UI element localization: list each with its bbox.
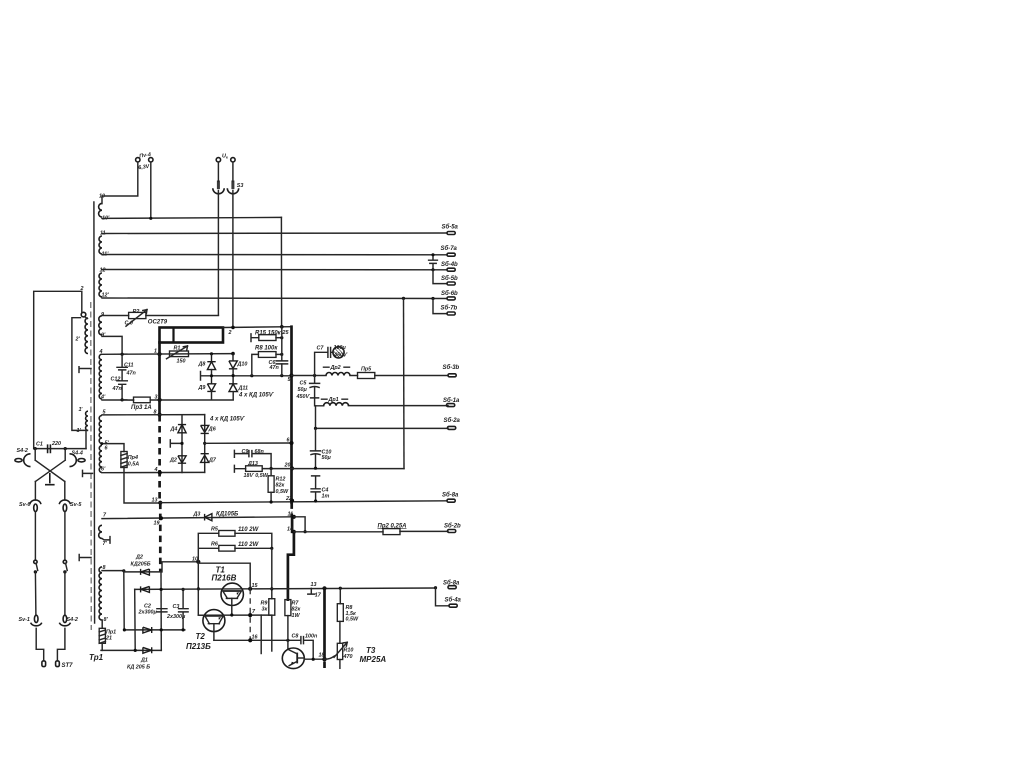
wire primary feed top (34, 291, 82, 448)
node bridge mid left (180, 442, 183, 445)
wire node1 line (102, 353, 233, 356)
capacitor C6 (276, 361, 287, 364)
svg-text:Sv-6: Sv-6 (19, 502, 31, 508)
svg-text:8': 8' (104, 617, 109, 623)
svg-text:Sб-8а: Sб-8а (443, 580, 460, 587)
svg-text:Д7: Д7 (208, 457, 217, 463)
node Sb-8v elbow (434, 586, 437, 589)
node Pr4-D3line none / node bus-D3 (159, 516, 163, 520)
wire node7 drop (260, 615, 262, 653)
wire circle to coil (85, 317, 88, 319)
control unit box (160, 328, 224, 343)
winding 7 lower tick (102, 537, 110, 544)
wire 20 line (234, 450, 404, 472)
capacitor C1 (48, 444, 51, 453)
node D8-D9 (210, 374, 213, 377)
wire x281 vertical (281, 327, 283, 376)
diode D7 (201, 454, 209, 463)
bus left vertical solid (158, 343, 161, 416)
fuse Pr1 (99, 628, 105, 643)
bus right dashed segment (290, 502, 293, 517)
wire Pr4 to node13 (124, 468, 160, 504)
wire C5 to Dr1 corner (314, 398, 317, 429)
svg-text:7': 7' (103, 541, 108, 547)
capacitor C7 branch (315, 348, 333, 376)
control unit divider (172, 328, 174, 343)
winding 8' to Pr1 (101, 620, 103, 628)
svg-text:Пр2 0,25А: Пр2 0,25А (378, 523, 407, 529)
wire Uk left down (217, 162, 219, 315)
capacitor C5 (310, 376, 320, 398)
node C6 bottom (280, 374, 283, 377)
wire R8b top (339, 588, 341, 604)
wire R5 right (235, 533, 272, 548)
node 5 (289, 373, 293, 377)
diode D8 (207, 354, 215, 376)
wire T1 long line (135, 588, 436, 589)
voltage selector mark (45, 473, 55, 485)
wire left contact to Sv-1 (34, 572, 37, 615)
svg-text:15: 15 (252, 583, 259, 589)
svg-text:R2: R2 (133, 309, 140, 315)
jack S4-4 (70, 454, 86, 467)
jack S4-2 upper (15, 454, 31, 467)
node 4b-433 (431, 268, 434, 271)
wire Sb-2a line (316, 427, 449, 429)
transformer Tr1 core (93, 202, 96, 623)
svg-text:С 0: С 0 (125, 321, 133, 327)
wire node7 line (198, 614, 271, 616)
wire Sb-7a line (102, 254, 447, 256)
svg-text:20: 20 (284, 463, 291, 469)
wire box top to bus right (223, 326, 292, 329)
svg-text:С12: С12 (111, 377, 121, 383)
node R15 right (280, 336, 283, 339)
capacitor C2 (157, 609, 167, 612)
svg-text:Пр4: Пр4 (128, 455, 138, 461)
svg-text:С9: С9 (242, 449, 249, 455)
wire lamp left to winding 10 (102, 162, 138, 204)
node row3 rail (160, 628, 163, 631)
diode row3 (143, 627, 152, 633)
node C8 drop (312, 658, 315, 661)
node 16 (248, 638, 252, 642)
svg-text:R6: R6 (211, 541, 219, 547)
svg-text:82к: 82к (292, 607, 301, 613)
diode D1 (143, 647, 152, 653)
node C11 top (121, 353, 124, 356)
tick 17 (308, 588, 315, 594)
diode D6 (201, 425, 209, 433)
node 3 (158, 398, 162, 402)
terminal Sb-8a (447, 499, 455, 502)
lamp terminal Pv-4 left (136, 158, 140, 162)
svg-text:3к: 3к (262, 607, 268, 613)
wire left to plug (36, 628, 44, 660)
svg-text:С7: С7 (317, 346, 325, 352)
svg-text:22: 22 (285, 496, 292, 502)
switch contact left (34, 560, 38, 573)
rectifier rail B (134, 589, 137, 650)
svg-text:Т3: Т3 (366, 646, 376, 655)
wire left drop to Sv-6 (34, 482, 36, 501)
wire row1 (124, 571, 161, 573)
wire node10-15 link (198, 563, 250, 589)
svg-text:Sv-5: Sv-5 (70, 502, 82, 508)
wire right drop to Sv-5 (64, 482, 66, 501)
terminal Sb-4b (447, 268, 455, 271)
wire Pr1 to row4 (101, 643, 103, 650)
resistor R6 (219, 545, 235, 551)
terminal Sb-7a (447, 253, 455, 256)
capacitor C7 can (333, 346, 344, 358)
winding 9 (99, 316, 102, 335)
svg-text:Пр3 1А: Пр3 1А (131, 405, 152, 411)
node 4 (158, 471, 162, 475)
diode D2 (178, 456, 186, 463)
capacitor C11 (117, 354, 127, 380)
wire Sb-6b line (102, 297, 447, 300)
svg-text:100n: 100n (305, 633, 318, 639)
node R1-D8 (210, 352, 213, 355)
node row3 railA (123, 628, 126, 631)
wire node10 feed (162, 562, 198, 572)
wire bridge out to node6 (205, 442, 292, 444)
wire 9' jog (102, 336, 122, 354)
node R6 right (270, 547, 273, 550)
node 7a-433 (431, 253, 434, 256)
wire Sb-5a line (102, 232, 447, 235)
wire winding6-node4 bridge bottom (102, 471, 205, 473)
svg-text:16: 16 (252, 634, 259, 640)
svg-text:47n: 47n (269, 365, 280, 371)
resistor R9 (269, 599, 275, 616)
connector S4-2 lower (59, 615, 70, 626)
fuse S3 left (213, 181, 224, 194)
svg-text:Д3: Д3 (193, 512, 201, 518)
node row4 railB (134, 649, 137, 652)
terminal Sb-8v (448, 586, 456, 589)
wire T3 collector line (304, 658, 324, 660)
svg-text:0,5А: 0,5А (128, 461, 139, 467)
node x280 top (280, 325, 284, 329)
screen tap B (83, 470, 93, 476)
svg-text:220: 220 (51, 441, 61, 447)
svg-text:19: 19 (154, 521, 160, 527)
label Dr2 dashes (324, 366, 350, 368)
svg-text:С11: С11 (124, 362, 134, 368)
wire R7 to T3 (287, 616, 289, 649)
svg-text:1W: 1W (292, 613, 301, 619)
node 20 (290, 466, 294, 470)
capacitor C13 between 7a and 4b (429, 255, 438, 270)
wire Pr2 Sb-2b line (294, 530, 448, 532)
choke Dr1 (324, 403, 349, 406)
svg-text:П216В: П216В (212, 573, 237, 582)
svg-text:21: 21 (105, 636, 112, 642)
wire bus x280 down (280, 217, 282, 326)
wire C12 to Pr3 line (122, 399, 133, 401)
svg-text:0,5W: 0,5W (346, 617, 359, 623)
svg-text:Д2: Д2 (135, 554, 143, 560)
wire Sb-5b elbow (433, 270, 447, 284)
primary winding 2 coil (85, 318, 88, 353)
capacitor C12 (117, 381, 127, 400)
svg-text:Д2: Д2 (169, 457, 177, 463)
connector Sv-6 (30, 500, 41, 512)
wire node5 Sb-3b line (292, 375, 449, 377)
choke Dr2 (326, 373, 350, 376)
plug left (42, 661, 46, 667)
diode D4 (178, 425, 186, 433)
label Dr1 dashes (322, 398, 348, 400)
bridge right column (204, 415, 206, 473)
switch contact right (63, 560, 67, 573)
bridge left column (181, 415, 183, 473)
svg-text:КД205Б: КД205Б (131, 562, 151, 568)
svg-text:50μ: 50μ (322, 455, 332, 461)
svg-text:Др2: Др2 (330, 365, 341, 371)
winding 10 (99, 203, 102, 217)
wire 4' Pr3 node3 line (102, 399, 233, 401)
fuse Pr3 (134, 397, 151, 403)
svg-text:3: 3 (155, 394, 158, 400)
svg-text:100μ: 100μ (334, 345, 347, 351)
wire row4 (101, 649, 161, 651)
svg-text:4: 4 (154, 467, 158, 473)
svg-text:МР25А: МР25А (360, 655, 387, 664)
wire right contact to S4-2 (64, 572, 66, 615)
node C1 left (34, 447, 37, 450)
resistor R8 100k (252, 352, 282, 376)
diode row2 (141, 586, 150, 592)
svg-text:R9: R9 (261, 600, 268, 606)
fuse Pr2 (383, 529, 400, 535)
potentiometer R10 (334, 642, 347, 659)
node D10-D11 (232, 374, 235, 377)
node 10 (196, 560, 200, 564)
wire R9 below (271, 615, 273, 651)
terminal Sb-7b (447, 312, 455, 315)
wire node16 line (214, 640, 313, 659)
bus left vertical dashed (158, 415, 161, 572)
wire winding8 to rectifier (102, 570, 124, 572)
svg-text:Sv-1: Sv-1 (19, 617, 30, 623)
svg-text:0,5W: 0,5W (276, 489, 289, 495)
svg-text:47n: 47n (126, 371, 137, 377)
svg-text:С3: С3 (173, 604, 180, 610)
svg-text:Др1: Др1 (328, 397, 339, 403)
node R12 top (270, 467, 273, 470)
wire node8 bridge top (102, 414, 205, 416)
bus right to node14 (291, 517, 294, 532)
svg-text:КД105Б: КД105Б (216, 512, 239, 518)
wire row3 (124, 629, 185, 631)
svg-text:Sб-6b: Sб-6b (441, 290, 458, 297)
node T1 base line (197, 587, 200, 590)
node R8 right (280, 353, 283, 356)
svg-text:Т2: Т2 (196, 632, 206, 641)
svg-text:Д6: Д6 (208, 426, 217, 432)
terminal Sb-6b (447, 297, 455, 300)
svg-text:1m: 1m (322, 493, 330, 499)
rectifier rail right (160, 572, 162, 651)
node T1 emitter (230, 613, 233, 616)
svg-text:450Ѵ: 450Ѵ (333, 353, 348, 359)
svg-text:2х300μ: 2х300μ (166, 614, 186, 620)
node 14 (292, 530, 296, 534)
svg-text:1: 1 (154, 349, 157, 355)
svg-text:R7: R7 (292, 600, 300, 606)
svg-text:П213Б: П213Б (186, 642, 211, 651)
svg-text:68n: 68n (255, 449, 265, 455)
bus right vertical main (290, 327, 293, 503)
node 6 (289, 441, 293, 445)
svg-text:6': 6' (101, 467, 106, 473)
winding 5-6 lower (99, 446, 102, 473)
svg-text:Sб-4b: Sб-4b (441, 261, 458, 268)
svg-text:С8: С8 (292, 633, 299, 639)
wire lamp right to 10' line (150, 162, 152, 218)
svg-text:R12: R12 (276, 476, 286, 482)
wire Sb-4a elbow (436, 588, 450, 606)
node 11 (292, 515, 296, 519)
winding 11 (99, 236, 102, 254)
svg-text:11: 11 (288, 512, 294, 518)
svg-text:Д11: Д11 (238, 385, 249, 391)
svg-text:Д9: Д9 (198, 385, 206, 391)
diode D2r (141, 569, 150, 575)
node R8 elbow (250, 374, 253, 377)
terminal Sb-2b (448, 530, 456, 533)
fuse S3 right (227, 181, 238, 194)
resistor R2 (126, 310, 147, 327)
resistor R15 (251, 334, 282, 342)
wire x271 down (271, 548, 273, 598)
node 18 (322, 657, 326, 661)
diode D9 (207, 376, 215, 400)
svg-text:12: 12 (100, 268, 106, 274)
svg-text:S4-4: S4-4 (72, 451, 83, 457)
node rail-row2 (160, 588, 163, 591)
svg-text:R8 100к: R8 100к (255, 346, 278, 352)
fuse Pr5 (358, 373, 375, 379)
svg-text:Д4: Д4 (170, 426, 178, 432)
svg-text:150: 150 (177, 358, 186, 364)
svg-text:ОС2Т9: ОС2Т9 (148, 320, 168, 326)
wire Sb-7b elbow (433, 299, 447, 314)
svg-text:Uк: Uк (222, 154, 229, 160)
svg-text:КД 205 Б: КД 205 Б (127, 665, 150, 671)
capacitor C4 (311, 476, 320, 501)
rectifier rail A (123, 571, 125, 630)
diode D3 (205, 514, 212, 521)
svg-text:S4-2: S4-2 (67, 617, 78, 623)
wire 15-7-16 dashed (249, 589, 251, 641)
svg-text:82к: 82к (276, 483, 285, 489)
terminal Sb-4a (449, 604, 457, 607)
resistor R5 (219, 531, 235, 537)
svg-text:13: 13 (152, 497, 158, 503)
winding 5-6 upper (99, 415, 102, 443)
bus node18 below dash (323, 662, 326, 669)
lamp terminal Pv-4 right (149, 158, 153, 162)
zener D13 (246, 466, 263, 472)
node C12 bottom (121, 398, 124, 401)
svg-text:С1: С1 (36, 442, 43, 448)
winding 8 (99, 567, 102, 620)
node 1 (157, 352, 161, 356)
svg-text:2: 2 (228, 330, 232, 336)
svg-text:9': 9' (101, 333, 106, 339)
svg-text:R5: R5 (211, 527, 219, 533)
svg-text:Sб-7а: Sб-7а (441, 245, 458, 252)
svg-text:R15 150к: R15 150к (255, 330, 282, 336)
node bridge mid right (203, 442, 206, 445)
resistor R8b (337, 604, 343, 622)
wire crossover X (35, 449, 65, 482)
wire bridge mid tick (170, 440, 182, 447)
svg-text:47n: 47n (112, 386, 123, 392)
screen tap C (79, 555, 91, 561)
wire node11 jog (294, 517, 305, 532)
terminal Sb-5a (447, 232, 455, 235)
capacitor C10 (311, 428, 321, 468)
svg-text:50μ: 50μ (298, 387, 308, 393)
node C3 bottom (182, 628, 185, 631)
primary winding 1 coil (86, 411, 88, 430)
svg-text:Тр1: Тр1 (89, 653, 104, 662)
node C3 top (182, 588, 185, 591)
svg-text:4 х КД 105Ѵ: 4 х КД 105Ѵ (209, 416, 246, 422)
connector Sv-1 (31, 615, 42, 626)
wire x403 down (403, 298, 406, 468)
bus node18 vertical (323, 588, 326, 659)
wire node18 to R10 wiper (325, 656, 335, 659)
svg-text:2': 2' (75, 337, 81, 343)
wire Dr1 Sb-1a line (316, 405, 449, 407)
plug right (56, 661, 60, 667)
svg-text:10: 10 (192, 556, 198, 562)
node C10 top (314, 427, 317, 430)
winding 12 (99, 273, 102, 297)
wire right Sv-5 to contact (64, 512, 66, 561)
svg-text:Д8: Д8 (198, 361, 206, 367)
svg-text:18Ѵ 0,5W: 18Ѵ 0,5W (244, 473, 269, 479)
terminal Sb-2a (448, 426, 456, 429)
svg-text:110 2W: 110 2W (238, 527, 260, 533)
winding 7 (99, 525, 102, 538)
wire Sb-4b line (102, 269, 447, 271)
node 6b-403 (402, 297, 405, 300)
svg-text:Sб-8а: Sб-8а (442, 492, 459, 499)
transistor T2 (203, 610, 225, 641)
svg-text:Sб-5b: Sб-5b (441, 275, 458, 282)
resistor R12 (268, 469, 274, 503)
node 22 (290, 499, 294, 503)
wire primary tap (72, 318, 88, 431)
svg-text:Sб-2а: Sб-2а (444, 417, 461, 424)
wire node10 down to T2 base (198, 562, 205, 615)
svg-text:4 х КД 105Ѵ: 4 х КД 105Ѵ (238, 393, 275, 399)
wire Sb-8a line (160, 501, 447, 503)
transistor T1 (221, 583, 243, 615)
wire R10 top to R8b (339, 621, 341, 643)
svg-text:17: 17 (315, 593, 322, 599)
svg-text:R10: R10 (344, 648, 354, 654)
wire R2 line (102, 315, 218, 317)
connector Sv-5 (59, 500, 70, 512)
